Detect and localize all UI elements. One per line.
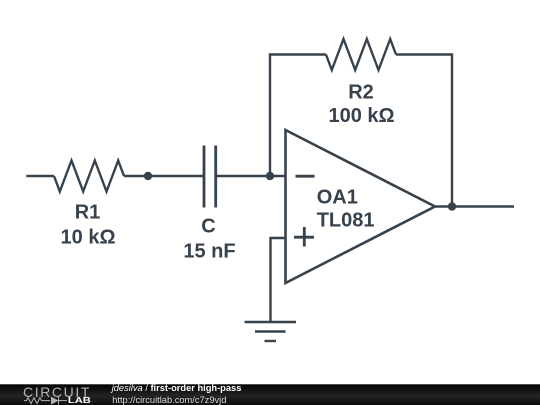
- svg-text:C: C: [201, 216, 215, 238]
- svg-text:100 kΩ: 100 kΩ: [328, 105, 394, 127]
- svg-text:15 nF: 15 nF: [183, 241, 235, 263]
- resistor R1: [54, 161, 124, 192]
- wire R1 to C: [124, 175, 203, 177]
- svg-text:10 kΩ: 10 kΩ: [61, 227, 116, 249]
- op-amp plus sign: [294, 227, 314, 247]
- svg-text:R1: R1: [75, 202, 101, 224]
- wire input left: [26, 175, 54, 177]
- footer bar: [0, 384, 540, 405]
- logo diode triangle: [51, 397, 59, 405]
- svg-text:TL081: TL081: [317, 210, 375, 232]
- wire feedback left vertical and top left: [270, 55, 326, 177]
- node between R1 and C: [144, 172, 152, 180]
- op-amp minus sign: [296, 175, 315, 178]
- op-amp U1 triangle: [286, 130, 436, 283]
- resistor R2: [326, 39, 396, 70]
- node at output: [448, 202, 456, 210]
- wire feedback top right and right vertical: [396, 55, 452, 207]
- svg-text:jdesilva / first-order high-pa: jdesilva / first-order high-pass: [110, 383, 242, 393]
- ground: [245, 322, 297, 341]
- svg-text:http://circuitlab.com/c7z9vjd: http://circuitlab.com/c7z9vjd: [112, 395, 226, 405]
- svg-text:LAB: LAB: [68, 396, 91, 405]
- logo resistor-diode glyph: [24, 397, 67, 405]
- svg-text:OA1: OA1: [317, 187, 358, 209]
- wire output: [435, 205, 514, 207]
- capacitor C: [204, 146, 216, 208]
- svg-text:R2: R2: [348, 82, 374, 104]
- node at inverting input: [266, 172, 274, 180]
- wire non-inverting input to ground: [271, 238, 286, 322]
- wire C to op-amp inverting input: [216, 175, 286, 177]
